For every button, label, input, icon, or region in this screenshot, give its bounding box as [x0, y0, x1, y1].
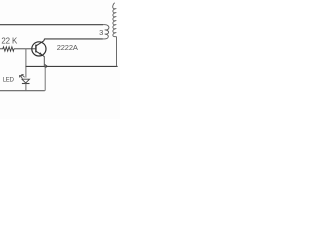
transistor Q1 circle — [32, 42, 46, 56]
transistor Q1 collector lead — [36, 39, 44, 46]
wire top rail — [0, 24, 103, 26]
transistor Q1 emitter lead with arrow — [36, 51, 44, 56]
transistor Q1 base bar — [35, 45, 37, 53]
svg-text:LED: LED — [3, 77, 15, 84]
wire collector rail — [44, 38, 103, 40]
svg-text:22 K: 22 K — [1, 36, 18, 45]
transformer primary winding (3 turns) — [103, 25, 109, 39]
LED D1 emission arrows — [20, 76, 23, 79]
emitter junction arrowhead — [45, 65, 47, 69]
wire emitter to bottom rail vertical — [44, 66, 45, 90]
wire LED cathode to bottom rail — [25, 84, 27, 92]
svg-text:2222A: 2222A — [57, 43, 78, 52]
svg-text:3: 3 — [99, 28, 103, 37]
wire base lead — [14, 48, 35, 50]
wire bottom rail — [0, 90, 44, 92]
transformer secondary coil L1 — [113, 3, 117, 37]
wire coil to emitter rail vertical — [116, 36, 118, 66]
LED D1 symbol: triangle anode, cathode bar — [22, 79, 30, 83]
wire LED branch vertical (junction at base wire) — [25, 49, 27, 78]
wire emitter rail — [26, 65, 118, 67]
resistor R1 (22K) zigzag — [0, 47, 14, 51]
